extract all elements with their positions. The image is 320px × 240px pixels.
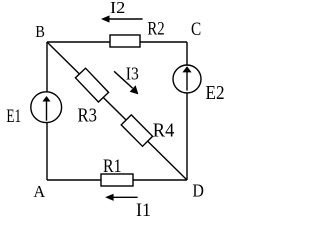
current arrow I3: [114, 71, 138, 94]
svg-text:B: B: [35, 22, 45, 41]
wire top B-C: [47, 41, 187, 43]
wire diagonal B-D: [47, 42, 187, 180]
wire right C-D: [186, 42, 188, 180]
current arrow I2: [101, 15, 143, 22]
current arrow I1: [105, 194, 138, 201]
svg-text:R4: R4: [153, 120, 175, 141]
source E1: [31, 92, 62, 123]
svg-text:C: C: [191, 20, 201, 40]
resistor R2: [110, 35, 140, 47]
svg-text:R1: R1: [103, 156, 122, 177]
wire left B-A: [46, 42, 48, 180]
wire bottom A-D: [47, 179, 187, 181]
svg-text:E2: E2: [206, 82, 225, 104]
svg-text:R2: R2: [147, 20, 164, 40]
svg-text:I1: I1: [136, 200, 151, 219]
svg-text:E1: E1: [6, 106, 21, 127]
svg-text:I3: I3: [126, 64, 139, 84]
source E2: [173, 65, 201, 93]
svg-text:D: D: [193, 180, 204, 200]
svg-text:A: A: [33, 182, 45, 201]
resistor R1: [101, 174, 133, 186]
svg-text:R3: R3: [78, 104, 98, 126]
svg-text:I2: I2: [110, 0, 125, 17]
resistor R4: [121, 115, 152, 146]
resistor R3: [75, 68, 108, 102]
